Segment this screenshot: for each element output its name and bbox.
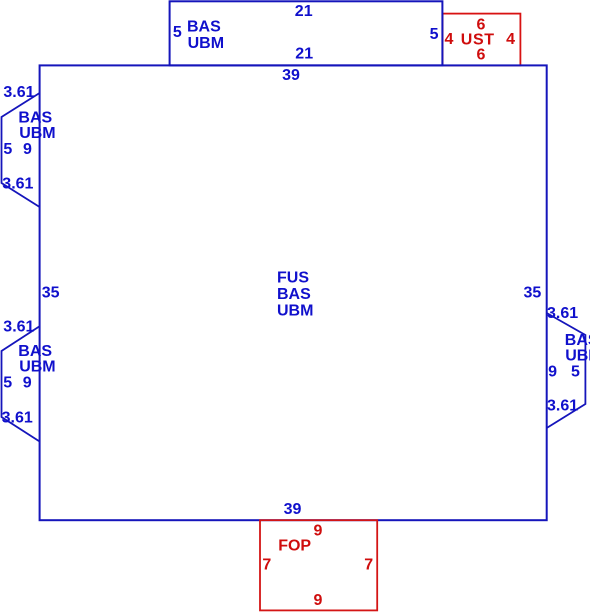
svg-text:6: 6: [477, 47, 486, 64]
svg-text:9: 9: [548, 363, 557, 380]
svg-text:FUS: FUS: [277, 270, 309, 287]
svg-text:5: 5: [430, 26, 439, 43]
svg-text:4: 4: [506, 31, 515, 48]
block FOP (red macro, bottom): [260, 520, 377, 610]
svg-text:9: 9: [314, 592, 323, 609]
svg-text:3.61: 3.61: [2, 176, 33, 193]
svg-text:39: 39: [284, 501, 302, 518]
svg-text:5: 5: [3, 375, 12, 392]
block BAS/UBM (blue macro, top): [170, 1, 443, 65]
block UST (red macro, top right): [443, 14, 521, 66]
svg-text:35: 35: [42, 285, 60, 302]
svg-text:BAS: BAS: [18, 343, 52, 360]
svg-text:BAS: BAS: [277, 286, 311, 303]
svg-text:5: 5: [3, 141, 12, 158]
svg-text:3.61: 3.61: [547, 305, 578, 322]
svg-text:39: 39: [282, 67, 300, 84]
svg-text:BAS: BAS: [187, 19, 221, 36]
svg-text:4: 4: [445, 31, 454, 48]
svg-text:21: 21: [295, 46, 313, 63]
svg-text:UBM: UBM: [19, 125, 55, 142]
svg-text:BAS: BAS: [18, 109, 52, 126]
svg-text:7: 7: [364, 557, 373, 574]
svg-text:35: 35: [524, 285, 542, 302]
svg-text:UBM: UBM: [19, 359, 55, 376]
svg-text:BAS: BAS: [565, 332, 590, 349]
svg-text:3.61: 3.61: [2, 410, 33, 427]
svg-text:3.61: 3.61: [3, 319, 34, 336]
hex macro BAS/UBM (lower left): [2, 326, 40, 441]
hex macro BAS/UBM (right): [547, 313, 586, 428]
svg-text:FOP: FOP: [278, 538, 311, 555]
svg-text:UBM: UBM: [277, 303, 313, 320]
svg-text:9: 9: [314, 523, 323, 540]
svg-text:3.61: 3.61: [3, 84, 34, 101]
main block FUS/BAS/UBM outline: [40, 65, 547, 520]
hex macro BAS/UBM (upper left): [2, 93, 40, 207]
svg-text:UBM: UBM: [188, 35, 224, 52]
svg-text:9: 9: [23, 141, 32, 158]
svg-text:3.61: 3.61: [547, 397, 578, 414]
svg-text:7: 7: [262, 557, 271, 574]
svg-text:5: 5: [173, 24, 182, 41]
svg-text:21: 21: [295, 3, 313, 20]
svg-text:9: 9: [23, 375, 32, 392]
svg-text:5: 5: [571, 363, 580, 380]
svg-text:UBM: UBM: [565, 347, 590, 364]
